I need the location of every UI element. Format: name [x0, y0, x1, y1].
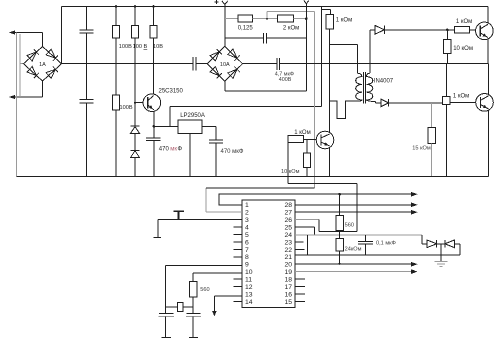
svg-text:2: 2	[245, 210, 249, 217]
wire pin1 net to arrow	[219, 194, 411, 205]
wire Q1 base	[135, 102, 143, 104]
wire mid rail to right edge	[280, 63, 489, 65]
svg-text:100 В: 100 В	[133, 44, 148, 50]
wire upper feed to 183 line	[288, 183, 357, 185]
svg-text:400В: 400В	[279, 77, 292, 83]
wire antenna1 stem	[224, 5, 226, 47]
wire pin21 long line	[295, 254, 460, 256]
wire AC input line 1 (top phase)	[11, 32, 43, 34]
svg-text:23: 23	[284, 239, 292, 246]
capacitor C7 load	[159, 312, 174, 314]
resistor R7 1kOhm	[326, 14, 333, 28]
resistor R2 100V	[134, 7, 136, 26]
wire pin2 net	[206, 211, 242, 213]
wire BR2 bottom	[224, 81, 226, 91]
wire mid rail right section	[243, 63, 277, 65]
svg-text:3: 3	[245, 217, 249, 224]
diode D1 1N4007	[370, 29, 375, 31]
wire Q4 emitter	[329, 148, 331, 176]
wire pin10 net	[193, 272, 242, 274]
wire pin27 net to arrow	[295, 211, 412, 213]
resistor R14 560	[190, 281, 198, 297]
wire pin25 net	[295, 226, 315, 228]
svg-text:470: 470	[159, 147, 170, 153]
wire Q2 emitter	[487, 39, 489, 64]
resistor R16 24kOhm	[339, 231, 341, 239]
zener diode VD2	[131, 149, 140, 151]
wire grey vertical to pin2 net	[314, 12, 316, 189]
svg-text:10 кОм: 10 кОм	[281, 169, 300, 175]
wire Q1 emitter	[153, 111, 155, 127]
svg-text:11: 11	[245, 277, 252, 284]
svg-text:2 кОм: 2 кОм	[283, 25, 299, 31]
resistor R3 10V	[153, 7, 155, 26]
svg-text:10: 10	[245, 269, 253, 276]
wire U2 output	[202, 125, 216, 127]
svg-text:22: 22	[284, 247, 292, 254]
svg-text:24: 24	[284, 232, 292, 239]
resistor R5 0.125	[238, 15, 252, 22]
wire grey line y234	[295, 234, 422, 236]
bridge rectifier BR2 10A	[207, 46, 242, 81]
wire BR1 + output up	[61, 7, 63, 64]
wire branch to transformer primary top	[330, 43, 358, 45]
wire jog to R7	[322, 9, 331, 11]
svg-text:15: 15	[284, 299, 292, 306]
capacitor C9 0.1uF	[365, 235, 367, 242]
capacitor C5 series	[263, 33, 265, 44]
resistor R4 100V	[112, 95, 119, 110]
svg-text:24кОм: 24кОм	[345, 246, 362, 252]
svg-text:19: 19	[284, 269, 292, 276]
node dots on top rail	[115, 5, 118, 8]
svg-text:1 кОм: 1 кОм	[453, 94, 469, 100]
svg-text:5: 5	[245, 232, 249, 239]
transistor Q3	[476, 94, 494, 112]
svg-text:10 кОм: 10 кОм	[453, 46, 473, 52]
svg-text:16: 16	[284, 291, 292, 298]
wire BR1 bottom corner to AC2	[42, 81, 44, 97]
capacitor C3 470uF	[153, 126, 155, 138]
wire filter cap line	[86, 7, 88, 31]
svg-text:560: 560	[200, 287, 209, 293]
capacitor C2 series (mid rail)	[192, 57, 194, 70]
wire ground rail	[17, 176, 489, 178]
zener diode VD1	[131, 125, 140, 127]
wire top supply rail	[62, 6, 488, 8]
resistor R12 1kOhm (Q4 base)	[288, 136, 303, 143]
diode D3	[427, 240, 437, 248]
svg-text:0,1 мкФ: 0,1 мкФ	[376, 240, 396, 246]
wire U2 ground pin	[189, 133, 191, 176]
wire LDO bypass up	[169, 107, 171, 127]
IC right stubs pins 23,22	[295, 241, 303, 243]
wire AC input line 2 (bottom phase)	[11, 96, 43, 98]
resistor R1 100V	[115, 7, 117, 26]
wire rail1 tap down to feed line	[321, 7, 323, 107]
wire mid rail left section	[62, 63, 194, 65]
svg-text:10А: 10А	[220, 62, 230, 68]
resistor R11 1kOhm	[454, 27, 469, 34]
svg-text:0,125: 0,125	[238, 25, 254, 31]
wire D4 to return line	[454, 243, 460, 245]
IC right stubs pins 18,17,16,15	[295, 278, 305, 280]
svg-text:10В: 10В	[153, 44, 163, 50]
svg-text:4: 4	[245, 225, 249, 232]
svg-text:560: 560	[345, 223, 354, 229]
wire Q2 collector	[487, 7, 489, 24]
IC left stubs pins 4-8	[234, 226, 242, 228]
resistor R10 10kOhm	[446, 30, 448, 40]
transformer T1 primary winding	[353, 73, 362, 101]
resistor R8 15kOhm	[431, 103, 433, 128]
transistor Q1 2SC3150	[143, 94, 161, 112]
bridge rectifier BR1 1A	[24, 47, 62, 82]
antenna symbol 1 with plus	[222, 1, 225, 5]
wire pin3 net with stub end	[158, 219, 242, 221]
wire Q3 base	[450, 101, 476, 103]
diode D2 1N4007	[381, 99, 389, 107]
capacitor C6 4.7uF 400V	[276, 58, 278, 70]
wire emitter to LDO input	[154, 125, 178, 127]
capacitor C8 load	[187, 312, 201, 314]
resistor R13 10kOhm	[306, 140, 308, 154]
capacitor C1b	[80, 99, 94, 101]
wire R12 left lead down	[287, 139, 289, 184]
svg-text:25C3150: 25C3150	[159, 89, 184, 95]
wire R12 to Q4 base	[303, 139, 316, 141]
svg-text:LP2950A: LP2950A	[180, 113, 205, 119]
transformer T1 secondary winding	[367, 73, 376, 101]
svg-text:8: 8	[245, 254, 249, 261]
transistor Q4	[316, 131, 334, 149]
wire pin26 net	[295, 219, 319, 221]
svg-text:мк: мк	[170, 147, 177, 153]
resistor R6 2kOhm	[277, 15, 293, 22]
svg-text:1 кОм: 1 кОм	[294, 130, 310, 136]
wire R11 to Q2 base	[470, 29, 476, 31]
svg-text:21: 21	[284, 254, 292, 261]
capacitor C4 470uF	[215, 126, 217, 140]
ground symbol	[440, 244, 442, 262]
antenna symbol 2	[304, 0, 307, 3]
svg-text:9: 9	[245, 262, 249, 269]
svg-text:IN4007: IN4007	[374, 78, 394, 84]
wire to R5 grey	[225, 18, 238, 20]
wire AC vertical grey pair	[16, 33, 18, 177]
wire feedback rail grey	[266, 12, 268, 19]
svg-text:18: 18	[284, 277, 292, 284]
wire pin19 net to arrow grey	[295, 271, 412, 273]
svg-text:100В: 100В	[120, 105, 133, 111]
svg-text:7: 7	[245, 247, 249, 254]
wire Q3 collector	[487, 64, 489, 96]
IC left stubs pins 11,12,14	[234, 278, 242, 280]
svg-text:100В: 100В	[119, 44, 132, 50]
svg-text:1: 1	[245, 202, 249, 209]
pushbutton S1	[173, 210, 184, 212]
wire D3-D4 junction	[437, 243, 445, 245]
svg-text:Ф: Ф	[178, 147, 183, 153]
transformer T1 core	[362, 72, 364, 104]
wire secondary bottom	[375, 101, 377, 103]
regulator U2 LP2950A	[178, 120, 202, 134]
wire Q3 emitter	[487, 110, 489, 177]
svg-text:20: 20	[284, 262, 292, 269]
wire upper feed line y106	[170, 106, 322, 108]
svg-text:1 кОм: 1 кОм	[456, 19, 472, 25]
wire antenna2 stem	[305, 4, 307, 91]
svg-text:13: 13	[245, 291, 253, 298]
svg-text:1 кОм: 1 кОм	[336, 18, 352, 24]
wire to diode clamp	[421, 235, 423, 244]
wire R6 to antenna2 stem	[293, 18, 306, 20]
svg-text:14: 14	[245, 299, 253, 306]
svg-text:15 кОм: 15 кОм	[412, 145, 431, 151]
svg-text:17: 17	[284, 284, 292, 291]
IC U1 28-pin body	[242, 200, 295, 307]
wire pin20 net to arrow	[295, 263, 412, 265]
capacitor C1a	[80, 29, 94, 31]
wire R7 bottom / Q4 collector line	[329, 29, 331, 132]
svg-text:470 мкФ: 470 мкФ	[221, 149, 244, 155]
wire R5 to R6 grey	[252, 18, 277, 20]
diode D4 (reversed)	[444, 240, 446, 248]
resistor R9 1kOhm (square)	[443, 97, 451, 105]
wire BR2 top bypass	[225, 37, 264, 39]
wire pin13 net with down arrow	[214, 295, 242, 297]
svg-text:28: 28	[284, 202, 292, 209]
wire C5 to antenna2 stem	[267, 37, 307, 39]
wire jog to primary bottom	[330, 101, 353, 119]
svg-text:1А: 1А	[39, 62, 46, 68]
transistor Q2	[476, 22, 494, 40]
svg-text:12: 12	[245, 284, 253, 291]
wire BR1 top corner to AC1	[42, 33, 44, 47]
resistor R15 560	[339, 194, 341, 215]
wire pin24 drop	[307, 235, 309, 255]
wire pin9 net	[166, 265, 242, 267]
wire pin28 net to arrow	[295, 204, 412, 206]
svg-text:6: 6	[245, 239, 249, 246]
svg-text:25: 25	[284, 225, 292, 232]
svg-text:26: 26	[284, 217, 292, 224]
crystal X1	[166, 306, 178, 308]
wire secondary top up	[369, 30, 371, 73]
svg-text:27: 27	[284, 210, 292, 217]
